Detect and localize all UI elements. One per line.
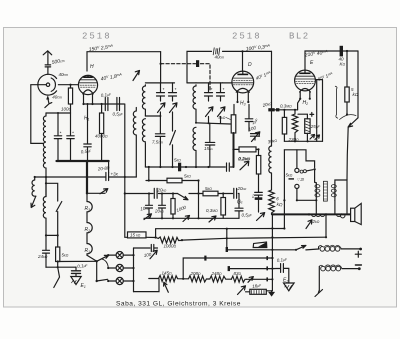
- svg-text:83Ω: 83Ω: [234, 271, 242, 276]
- electrolytic 25uF: [305, 119, 310, 134]
- svg-text:2kΩ: 2kΩ: [312, 219, 320, 224]
- arrow on chain end: [247, 277, 272, 283]
- wire to 1000 zigzag: [146, 236, 156, 238]
- wire panel frame: [284, 150, 314, 168]
- svg-text:0,3MΩ: 0,3MΩ: [206, 208, 218, 213]
- switch blade bottom left: [54, 267, 60, 287]
- svg-text:0,5μF: 0,5μF: [242, 213, 253, 218]
- capacitor 20kOhm a: [154, 188, 157, 198]
- resistor 145 Ohm zigzag: [149, 275, 183, 281]
- switch blade jack: [306, 170, 313, 171]
- choke2 lead left down: [318, 267, 320, 291]
- switch arrow below coil1: [31, 196, 36, 207]
- earth blade: [257, 213, 265, 221]
- node: [101, 103, 103, 105]
- variable arrow tank1 a: [158, 103, 166, 116]
- resistor 6kOhm zigzag vertical: [269, 190, 275, 214]
- earth arrow right W218.3: [209, 216, 216, 222]
- resistor box on grid col: [282, 117, 286, 134]
- node: [34, 176, 36, 178]
- transformer secondary winding: [334, 183, 336, 201]
- svg-text:0,5μF: 0,5μF: [113, 112, 124, 117]
- inductor tank2 upper coil: [193, 85, 196, 123]
- plus terminal: [355, 251, 361, 257]
- variable arrow: [150, 250, 157, 259]
- switch on choke1 lead: [296, 246, 319, 250]
- tone arrow: [240, 161, 249, 170]
- svg-text:5kΩ: 5kΩ: [184, 174, 191, 179]
- switch blade 16uF: [238, 286, 250, 295]
- capacitor 20kOhm col: [159, 194, 166, 219]
- svg-text:1000Ω: 1000Ω: [164, 244, 177, 249]
- wire tuning row: [35, 176, 137, 178]
- wire coil top row: [46, 112, 71, 114]
- svg-text:7,5cm: 7,5cm: [152, 140, 163, 145]
- choke 1: [320, 247, 325, 252]
- svg-text:100Ω: 100Ω: [61, 107, 72, 112]
- wire 16uF to bus B: [266, 290, 271, 292]
- svg-text:20kΩ: 20kΩ: [237, 186, 248, 191]
- speaker voice coil left: [311, 214, 324, 216]
- ground E2: [284, 283, 295, 291]
- wire W250: [227, 249, 296, 251]
- earth arrow mid W218.3: [183, 216, 190, 222]
- riser to W229: [155, 229, 157, 238]
- switch blade on branch: [100, 189, 108, 194]
- capacitor tank1 b: [169, 83, 177, 101]
- choke1 lead right: [319, 247, 361, 249]
- svg-text:*: *: [223, 87, 225, 92]
- speaker box: [351, 208, 355, 221]
- capacitor 24kOhm column: [43, 235, 50, 267]
- ground E1: [71, 277, 81, 285]
- wire primary bottom down: [315, 200, 317, 214]
- wire primary top from blade: [315, 181, 317, 184]
- wire secondary top to anode feed: [335, 180, 347, 214]
- wire secondary bottom down: [334, 200, 336, 213]
- wire rail B drop right: [271, 51, 273, 108]
- wire W229: [156, 228, 285, 230]
- wire W218.3: [144, 217, 239, 219]
- capacitor left a: [54, 113, 61, 161]
- svg-text:40cm: 40cm: [59, 72, 69, 77]
- switch blade W193.5: [178, 194, 189, 200]
- minus terminal: [355, 264, 361, 266]
- inductor antenna secondary (long): [43, 113, 46, 197]
- resistor 230 Ohm zigzag: [292, 110, 298, 142]
- lamp L2: [116, 264, 123, 271]
- wire coupler to left column: [31, 85, 44, 144]
- trimmer capacitor 20-80cm: [106, 173, 109, 181]
- wire tank2 riser top: [187, 82, 196, 84]
- plus mark: [310, 113, 314, 117]
- tube D grid: [233, 78, 254, 83]
- svg-text:0,3MΩ: 0,3MΩ: [280, 104, 292, 109]
- svg-text:15 kΩ: 15 kΩ: [130, 233, 141, 238]
- coupler inner arc: [51, 78, 55, 91]
- capacitor tank2 b: [217, 83, 225, 101]
- svg-text:⌔3!: ⌔3!: [296, 177, 305, 182]
- resistor 83 Ohm zigzag: [231, 276, 246, 282]
- inductor tank1 upper coil: [142, 85, 145, 116]
- electrolytic 16uF: [250, 289, 266, 294]
- wire thick cathode drop: [233, 133, 235, 167]
- svg-text:40cm: 40cm: [52, 95, 62, 100]
- resistor 1000 box vertical: [171, 199, 175, 215]
- resistor 0,2MOhm box horizontal: [239, 147, 256, 152]
- node pin dots D: [236, 101, 238, 103]
- wire tank1 mid: [145, 115, 160, 117]
- svg-text:5kΩ: 5kΩ: [62, 253, 69, 258]
- svg-text:20kΩ: 20kΩ: [157, 188, 168, 193]
- resistor 5kOhm bar on W167: [178, 163, 181, 172]
- capacitor Gc column: [235, 194, 243, 219]
- node rail B junction tube D: [241, 50, 243, 52]
- svg-text:208Ω: 208Ω: [190, 271, 202, 276]
- node pin dots H: [82, 103, 84, 105]
- svg-text:15cm: 15cm: [204, 146, 214, 151]
- wire curve to lamp2: [102, 259, 109, 267]
- vertical 226.8: [226, 229, 228, 250]
- wire blade to transformer: [314, 169, 316, 182]
- wire W269.3: [229, 268, 273, 270]
- inductor tank2 lower coil: [193, 127, 196, 167]
- trimmer bar on gang link: [196, 60, 199, 67]
- svg-text:5kΩ: 5kΩ: [174, 158, 181, 163]
- leader line: [226, 118, 231, 120]
- tone wedge: [253, 242, 267, 248]
- resistor 20kOhm bar on vertical: [268, 108, 274, 111]
- tube H filament: [83, 90, 93, 94]
- svg-text:145Ω: 145Ω: [162, 271, 173, 276]
- coupler arrow lower: [46, 95, 49, 99]
- nodes on W167: [159, 166, 161, 168]
- variable arrow tank1 b: [170, 103, 178, 118]
- switch blade left column: [56, 202, 62, 236]
- resistor 100 Ohm box: [68, 88, 72, 104]
- wire grid row E: [272, 110, 298, 112]
- resistor 15 kOhm box: [128, 232, 147, 238]
- tube E grid: [295, 76, 315, 79]
- switch blade 2k: [306, 220, 312, 229]
- tick on W258: [204, 256, 206, 261]
- vertical 258.5: [258, 149, 260, 155]
- connector circles: [300, 170, 303, 173]
- capacitor 7,5cm: [155, 116, 165, 167]
- wire rail C drop: [357, 51, 359, 118]
- wire lamp bus bottom row: [134, 279, 160, 292]
- wire bus end down: [325, 214, 327, 237]
- lamp L3: [116, 277, 123, 284]
- antenna coupler circle: [38, 74, 57, 95]
- variable arrow floating: [133, 71, 140, 81]
- wire R1 to lamp switch: [87, 255, 97, 261]
- wire tank2 mid: [196, 123, 231, 124]
- variable arrow tank2 b: [218, 107, 226, 123]
- svg-text:5kΩ: 5kΩ: [205, 186, 212, 191]
- tube D envelope: [232, 71, 254, 93]
- capacitor left b: [67, 113, 74, 161]
- wire bottom left row: [46, 266, 76, 268]
- wire tank2 top: [196, 82, 223, 84]
- speaker voice coil right: [337, 214, 345, 217]
- svg-text:248Ω: 248Ω: [211, 271, 223, 276]
- wire jack2 down: [297, 189, 316, 201]
- switch blade right: [348, 118, 358, 127]
- wire tube D anode riser: [242, 51, 244, 71]
- capacitor 0,1uF to E2: [272, 264, 288, 283]
- svg-text:kΩ: kΩ: [353, 92, 359, 97]
- antenna arrow: [43, 51, 52, 64]
- capacitor 2uF tube D: [245, 105, 253, 132]
- inductor wave-change coil 2: [43, 196, 46, 235]
- svg-text:BL2: BL2: [289, 32, 310, 42]
- switch arc: [340, 115, 357, 120]
- svg-text:25μF: 25μF: [310, 124, 321, 129]
- svg-text:KΩ: KΩ: [340, 62, 346, 67]
- capacitor 0,1uF to earth: [75, 267, 77, 270]
- connector tick: [226, 247, 228, 252]
- lamp L1: [116, 252, 123, 259]
- tube H envelope: [78, 75, 97, 94]
- choke 2: [321, 266, 326, 271]
- wire riser tank1 from rail: [160, 52, 162, 83]
- wire cathode bus (thick): [57, 160, 109, 162]
- tube H anode plate: [87, 75, 89, 76]
- wire branch to switch column: [46, 183, 58, 201]
- tube H grid: [79, 80, 96, 83]
- tube D pins: [238, 92, 249, 102]
- transformer primary winding: [315, 183, 317, 201]
- capacitor 0,1uF: [105, 98, 108, 111]
- wire branch right: [87, 192, 105, 194]
- switch blade to lamp3: [97, 279, 108, 281]
- tube E envelope: [295, 70, 316, 91]
- capacitor 500cm antenna: [45, 65, 50, 67]
- inductor reaction coil: [133, 108, 136, 178]
- wire W238: [182, 237, 325, 240]
- tube E anode plate: [304, 70, 306, 72]
- wire join row: [46, 234, 58, 236]
- svg-text:*: *: [163, 87, 165, 92]
- resistor 40kOhm bar on rail C: [340, 46, 343, 57]
- potentiometer wiper arrow: [164, 282, 169, 292]
- tube D anode plate: [242, 71, 244, 73]
- wire anode rail B (tube D): [187, 51, 272, 83]
- speaker cone: [355, 203, 361, 224]
- capacitor tank1 a: [157, 83, 165, 101]
- capacitor 2uF lower: [255, 192, 263, 212]
- resistor 208 Ohm zigzag: [183, 276, 208, 282]
- capacitor 0,5uF cathode: [84, 104, 91, 161]
- wire coupler to grid side: [58, 84, 78, 86]
- wire heater row tube H: [84, 103, 125, 105]
- wire bottom row E stage: [284, 140, 322, 142]
- transformer core: [323, 181, 327, 201]
- wire bus drop to trimmer: [108, 161, 110, 173]
- coupler center circle: [46, 83, 49, 86]
- ballast R1: [87, 235, 92, 256]
- choke2 lead right: [342, 268, 359, 270]
- wire tank1 top: [145, 82, 174, 84]
- svg-text:40cm: 40cm: [215, 55, 225, 60]
- capacitor 15cm tank2: [205, 123, 215, 167]
- svg-text:H: H: [90, 64, 94, 70]
- resistor 5kOhm box horizontal: [167, 178, 182, 183]
- wire secondary column: [45, 177, 47, 197]
- cathode hatch arrows: [310, 135, 320, 140]
- resistor 5kOhm box b: [203, 191, 218, 196]
- resistor 5kOhm box left: [56, 247, 60, 262]
- jack circle 2: [295, 184, 299, 188]
- capacitor right end W167: [227, 163, 230, 171]
- svg-text:*: *: [72, 131, 74, 136]
- svg-text:20kΩ: 20kΩ: [154, 209, 165, 214]
- resistor 5kOhm box right: [345, 87, 349, 102]
- resistor 248 Ohm zigzag: [208, 276, 231, 282]
- tube E pins: [300, 92, 310, 99]
- inductor wave-change coil 1: [32, 177, 36, 196]
- capacitor 100 with arrow: [251, 134, 260, 140]
- svg-text:*: *: [60, 131, 62, 136]
- wire W167: [145, 166, 233, 168]
- wire W180: [146, 167, 199, 181]
- capacitor 0,5uF: [117, 98, 120, 111]
- wire anode rail C (tube E): [305, 51, 358, 70]
- capacitor 20kOhm b: [234, 188, 237, 198]
- resistor 1000 Ohm zigzag: [156, 237, 182, 243]
- wire dashed gang link: [161, 64, 210, 90]
- wire speaker bus thick: [272, 213, 350, 215]
- node grid side: [69, 84, 71, 86]
- wire drop to jack1: [296, 150, 298, 169]
- svg-text:+3x: +3x: [111, 172, 119, 177]
- svg-text:D: D: [248, 62, 252, 68]
- wire to left network: [58, 260, 97, 262]
- tube H pins: [84, 93, 93, 104]
- tube E filament: [300, 89, 311, 93]
- switch blade to lamp1: [97, 255, 109, 261]
- svg-text:Saba, 331 GL, Gleichstrom, 3 K: Saba, 331 GL, Gleichstrom, 3 Kreise: [116, 301, 241, 308]
- wire thick drop from bus: [86, 161, 88, 193]
- vertical feed to 15k: [125, 194, 128, 238]
- connector curl: [335, 86, 337, 118]
- wire tank2 to grid D: [223, 82, 233, 84]
- wire blade down to transformer: [347, 127, 348, 180]
- earth arrow left W218.3: [144, 214, 152, 220]
- wire W193.5: [125, 193, 239, 195]
- wire into center: [38, 84, 47, 86]
- wire drop to tuning row: [124, 104, 126, 194]
- capacitor 10kOhm col: [146, 194, 153, 219]
- svg-text:2: 2: [251, 194, 255, 199]
- arrow terminal down: [269, 291, 274, 296]
- wire anode rail tube H: [87, 52, 161, 71]
- node pin dots E: [299, 98, 301, 100]
- connector ticks before bus: [266, 256, 268, 260]
- lamp switch column: [96, 261, 98, 281]
- resistor box vertical right: [256, 156, 260, 175]
- svg-text:*: *: [175, 87, 177, 92]
- vertical 198.5: [198, 181, 200, 219]
- svg-text:4000Ω: 4000Ω: [95, 134, 108, 139]
- node: [197, 192, 199, 194]
- wire 5k branch: [346, 51, 348, 87]
- capacitor 40cm inline on rail B: [213, 48, 220, 55]
- variable arrow: [252, 132, 260, 142]
- capacitor 100cm: [151, 245, 157, 252]
- jack circle 1: [295, 168, 299, 172]
- svg-text:5kΩ: 5kΩ: [286, 173, 293, 178]
- wire lamp bus top to cap: [134, 247, 151, 249]
- ballast R3: [87, 193, 92, 213]
- svg-text:8kΩ: 8kΩ: [219, 115, 226, 120]
- inductor tank1 lower coil: [142, 119, 145, 167]
- capacitor tank2 a: [205, 83, 213, 101]
- resistor 0,3MOhm box: [221, 198, 226, 216]
- tube D filament: [236, 88, 249, 92]
- variable arrow tank2 a: [206, 107, 214, 123]
- verticals from tube E right: [315, 79, 322, 141]
- switch blade tank1: [170, 118, 176, 167]
- resistor bar 0,3MOhm: [276, 108, 279, 111]
- svg-text:2518: 2518: [82, 32, 112, 42]
- resistor 8kOhm box: [231, 115, 236, 133]
- riser 183.2 to W258: [183, 258, 271, 279]
- inductor 30kOhm coil: [269, 146, 272, 190]
- svg-text:24kΩ: 24kΩ: [37, 254, 48, 259]
- grid stub E: [298, 99, 301, 110]
- switch blade choke2: [315, 290, 323, 297]
- svg-text:0,2MΩ: 0,2MΩ: [238, 157, 250, 162]
- resistor 4000 Ohm box: [100, 113, 104, 134]
- wire rail drop continue: [271, 111, 273, 146]
- lamp bus vertical: [133, 248, 135, 292]
- node gang junction 1: [160, 63, 162, 65]
- tick on W269.3: [228, 266, 230, 271]
- svg-text:*: *: [211, 87, 213, 92]
- svg-text:2518: 2518: [232, 32, 262, 42]
- vertical 284.4: [283, 150, 285, 229]
- ballast R2: [87, 214, 92, 235]
- bus B down: [271, 214, 274, 290]
